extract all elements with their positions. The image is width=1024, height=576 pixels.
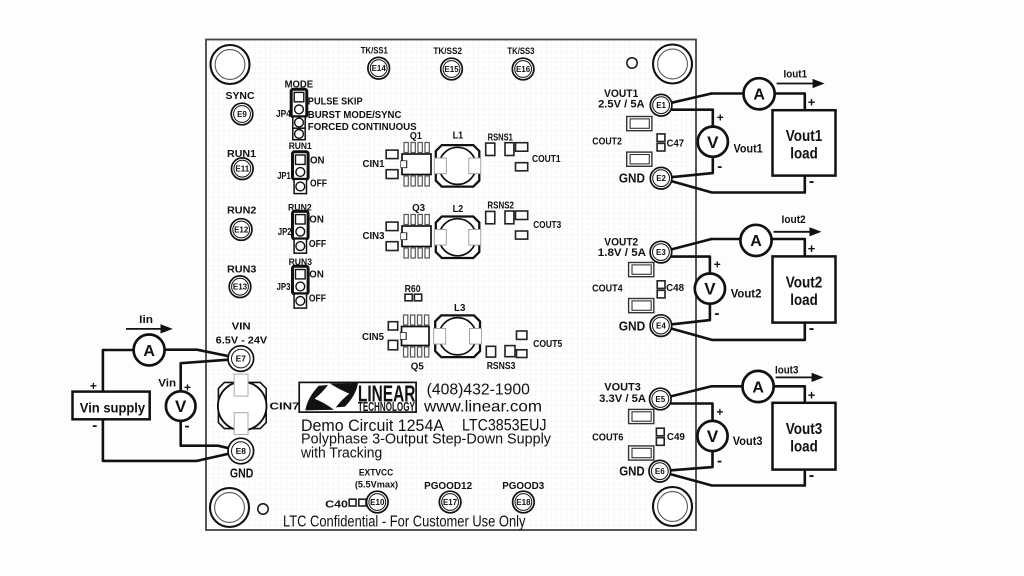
- svg-text:2.5V / 5A: 2.5V / 5A: [598, 99, 645, 111]
- inductor L2: [434, 217, 481, 259]
- transistor Q5: [401, 315, 429, 357]
- test point E10 EXTVCC: [367, 491, 389, 513]
- test point E17 PGOOD12: [439, 491, 461, 513]
- svg-text:A: A: [143, 343, 155, 360]
- mounting hole bottom-left: [210, 488, 249, 527]
- svg-text:E6: E6: [655, 467, 665, 476]
- svg-text:V: V: [175, 397, 187, 416]
- ammeter A output 3: [743, 371, 774, 402]
- svg-text:JP3: JP3: [277, 281, 291, 293]
- svg-text:with Tracking: with Tracking: [300, 445, 382, 461]
- Iout1 label and arrow: [777, 68, 825, 88]
- svg-text:JP2: JP2: [278, 226, 292, 238]
- test point E9 SYNC: [231, 103, 253, 125]
- transistor Q3: [401, 215, 431, 259]
- svg-text:C47: C47: [667, 139, 685, 150]
- voltmeter V output 3: [697, 421, 727, 451]
- svg-text:+: +: [808, 241, 816, 256]
- svg-text:V: V: [704, 280, 716, 299]
- svg-text:RSNS2: RSNS2: [487, 201, 514, 212]
- svg-text:www.linear.com: www.linear.com: [423, 399, 542, 416]
- capacitor COUT4 lower: [629, 299, 654, 313]
- capacitor near RSNS1: [516, 143, 528, 171]
- test point E11 RUN1: [232, 158, 254, 180]
- svg-text:E16: E16: [516, 65, 531, 74]
- svg-text:CIN7: CIN7: [270, 401, 300, 413]
- svg-text:Q5: Q5: [411, 361, 424, 373]
- wire ammeter to Vout2 load +: [772, 239, 805, 256]
- svg-text:E2: E2: [656, 174, 666, 183]
- voltmeter V output 1: [698, 127, 728, 157]
- capacitor COUT4 upper: [629, 263, 654, 277]
- capacitor C40: [349, 499, 366, 506]
- resistor RSNS1: [486, 143, 514, 156]
- svg-text:Vout3: Vout3: [786, 421, 823, 438]
- wire E3 to ammeter Iout2: [661, 239, 712, 252]
- svg-text:CIN3: CIN3: [363, 231, 385, 242]
- svg-text:COUT4: COUT4: [592, 284, 623, 295]
- Vout3 load box: [773, 403, 836, 470]
- Iin current label and arrow: [126, 314, 173, 334]
- capacitor C49: [656, 428, 685, 445]
- svg-text:L3: L3: [454, 302, 466, 314]
- test point E16 TK/SS3: [512, 58, 534, 80]
- svg-text:E13: E13: [233, 283, 248, 292]
- svg-text:+: +: [808, 387, 816, 402]
- svg-text:COUT3: COUT3: [533, 220, 561, 231]
- svg-text:-: -: [92, 417, 97, 434]
- wire E6 GND to load -: [660, 470, 805, 486]
- svg-text:VIN: VIN: [232, 321, 251, 333]
- jumper JP2 RUN2: [293, 211, 309, 253]
- svg-text:VOUT3: VOUT3: [604, 381, 641, 393]
- Iout3 label and arrow: [775, 364, 824, 382]
- svg-text:Iin: Iin: [139, 314, 153, 326]
- wire E5 to voltmeter Vout3 +: [660, 401, 712, 422]
- svg-text:PGOOD12: PGOOD12: [424, 481, 472, 492]
- svg-text:Q1: Q1: [410, 130, 422, 142]
- svg-text:C48: C48: [666, 283, 684, 294]
- resistor RSNS2: [486, 211, 514, 224]
- test point E3 VOUT2: [650, 241, 672, 263]
- svg-text:E7: E7: [236, 354, 247, 364]
- svg-text:V: V: [707, 427, 719, 446]
- wire E3 to voltmeter Vout2 +: [661, 254, 710, 274]
- wire ammeter to E7 VIN: [165, 350, 241, 359]
- svg-text:E18: E18: [516, 498, 531, 507]
- mounting hole top-left: [211, 45, 250, 84]
- capacitor COUT2 upper: [627, 117, 652, 131]
- wire voltmeter - to E6 GND: [660, 451, 713, 471]
- ammeter A output 1: [744, 78, 775, 109]
- test point E12 RUN2: [230, 219, 252, 241]
- svg-text:-: -: [809, 467, 814, 484]
- svg-text:load: load: [790, 438, 818, 455]
- Iout2 label and arrow: [774, 214, 822, 237]
- test point E14 TK/SS1: [368, 57, 390, 79]
- svg-text:Q3: Q3: [412, 202, 425, 214]
- svg-text:RSNS3: RSNS3: [487, 361, 516, 372]
- wire E5 to ammeter Iout3: [660, 386, 711, 399]
- svg-text:V: V: [707, 133, 719, 152]
- test point E4 GND: [650, 315, 672, 337]
- svg-text:L2: L2: [453, 203, 464, 215]
- svg-text:Vin supply: Vin supply: [80, 400, 146, 415]
- svg-text:GND: GND: [619, 171, 645, 186]
- Vin supply source box: [73, 392, 150, 420]
- mounting hole top-right: [653, 45, 692, 84]
- svg-text:E12: E12: [234, 225, 249, 234]
- inductor L1: [434, 145, 481, 187]
- svg-text:COUT1: COUT1: [532, 154, 561, 165]
- svg-text:PGOOD3: PGOOD3: [502, 481, 544, 492]
- svg-text:E9: E9: [237, 110, 247, 119]
- svg-text:6.5V - 24V: 6.5V - 24V: [216, 334, 268, 346]
- svg-text:A: A: [752, 379, 764, 396]
- svg-text:PULSE SKIP: PULSE SKIP: [308, 95, 363, 107]
- svg-text:load: load: [790, 292, 818, 309]
- svg-text:COUT5: COUT5: [533, 339, 563, 350]
- svg-text:Vout1: Vout1: [786, 128, 823, 145]
- wire voltmeter - to E2 GND: [661, 157, 713, 179]
- test point E5 VOUT3: [650, 388, 672, 410]
- svg-text:Vout2: Vout2: [731, 287, 762, 301]
- test point E1 VOUT1: [650, 94, 672, 116]
- small hole near bottom-left: [258, 504, 268, 514]
- voltmeter V input voltage: [166, 391, 196, 421]
- svg-text:E17: E17: [443, 498, 458, 507]
- svg-text:E10: E10: [370, 498, 385, 507]
- svg-text:BURST MODE/SYNC: BURST MODE/SYNC: [308, 109, 402, 121]
- svg-text:RUN2: RUN2: [227, 205, 257, 217]
- svg-text:Vout1: Vout1: [734, 142, 763, 156]
- svg-text:A: A: [753, 87, 765, 104]
- svg-text:+: +: [808, 95, 816, 110]
- wire ammeter to Vout1 load +: [775, 94, 805, 111]
- Vout2 load box: [773, 256, 836, 322]
- wire Vin supply + to ammeter: [103, 350, 134, 392]
- svg-text:C40: C40: [325, 500, 348, 511]
- wire E1 to ammeter Iout1: [661, 94, 711, 106]
- svg-text:E11: E11: [235, 165, 249, 174]
- turret E7 VIN: [228, 346, 254, 372]
- svg-text:RUN3: RUN3: [227, 263, 257, 275]
- mounting hole bottom-right: [653, 487, 692, 526]
- svg-text:JP4: JP4: [276, 108, 291, 120]
- svg-text:CIN5: CIN5: [362, 332, 384, 343]
- test point E15 TK/SS2: [441, 58, 463, 80]
- svg-text:-: -: [809, 320, 814, 337]
- svg-text:E15: E15: [444, 65, 459, 74]
- capacitor near RSNS2: [516, 211, 528, 239]
- capacitor C48: [657, 281, 684, 298]
- svg-text:1.8V / 5A: 1.8V / 5A: [598, 247, 646, 259]
- svg-text:OFF: OFF: [309, 293, 326, 305]
- svg-text:GND: GND: [619, 464, 645, 479]
- svg-text:COUT2: COUT2: [592, 136, 622, 147]
- svg-text:-: -: [717, 158, 722, 175]
- demo board outline: [206, 40, 696, 531]
- svg-text:Iout3: Iout3: [775, 364, 798, 376]
- svg-text:E1: E1: [656, 101, 666, 110]
- jumper JP3 RUN3: [293, 266, 309, 308]
- Vout1 load box: [773, 110, 836, 175]
- svg-text:L1: L1: [453, 129, 464, 141]
- svg-text:TK/SS3: TK/SS3: [507, 46, 534, 57]
- svg-text:Vin: Vin: [158, 377, 176, 389]
- wire E2 GND to load -: [661, 176, 805, 193]
- capacitor CIN1: [386, 150, 398, 178]
- svg-text:3.3V / 5A: 3.3V / 5A: [599, 393, 646, 405]
- capacitor COUT6 upper: [629, 409, 654, 423]
- voltmeter V output 2: [695, 274, 725, 304]
- wire Vin supply - to E8 GND: [103, 419, 241, 461]
- resistor R60: [405, 294, 422, 301]
- wire voltmeter Vin + to E7: [181, 359, 241, 392]
- wire voltmeter Vin - to E8: [181, 421, 241, 451]
- resistor RSNS3: [486, 346, 515, 357]
- svg-text:+: +: [714, 258, 721, 272]
- svg-text:EXTVCC: EXTVCC: [359, 467, 394, 478]
- svg-text:CIN1: CIN1: [363, 159, 385, 170]
- wire E4 GND to load -: [661, 323, 805, 340]
- svg-text:E5: E5: [655, 395, 665, 404]
- svg-text:Iout1: Iout1: [784, 68, 808, 80]
- svg-text:E14: E14: [372, 64, 387, 73]
- svg-text:GND: GND: [619, 318, 646, 333]
- test point E18 PGOOD3: [513, 491, 535, 513]
- test point E13 RUN3: [229, 276, 251, 298]
- svg-text:LTC Confidential - For Custom: LTC Confidential - For Customer Use Only: [283, 514, 526, 531]
- svg-text:ON: ON: [309, 269, 324, 281]
- capacitor COUT6 lower: [629, 446, 654, 460]
- jumper JP4 MODE: [291, 89, 307, 140]
- svg-text:GND: GND: [230, 465, 254, 480]
- capacitor CIN5: [388, 322, 397, 350]
- svg-text:ON: ON: [310, 155, 325, 167]
- svg-text:JP1: JP1: [277, 170, 291, 182]
- turret E8 GND: [228, 438, 254, 464]
- svg-text:-: -: [809, 173, 814, 190]
- svg-text:TECHNOLOGY: TECHNOLOGY: [358, 400, 415, 414]
- Linear Technology logo: [299, 380, 416, 414]
- svg-text:TK/SS1: TK/SS1: [361, 46, 389, 57]
- svg-text:FORCED CONTINUOUS: FORCED CONTINUOUS: [308, 121, 417, 133]
- svg-text:+: +: [184, 380, 191, 394]
- jumper JP1 RUN1: [293, 152, 309, 194]
- svg-text:+: +: [716, 405, 723, 419]
- svg-text:-: -: [717, 453, 722, 470]
- capacitor CIN3: [386, 222, 398, 250]
- capacitor COUT2 lower: [627, 152, 652, 166]
- svg-text:OFF: OFF: [310, 178, 327, 190]
- svg-text:Vout2: Vout2: [786, 274, 823, 291]
- svg-text:RSNS1: RSNS1: [488, 132, 514, 143]
- svg-text:(408)432-1900: (408)432-1900: [427, 382, 530, 399]
- svg-text:SYNC: SYNC: [226, 90, 255, 102]
- svg-text:OFF: OFF: [309, 238, 327, 250]
- svg-text:Vout3: Vout3: [733, 434, 763, 448]
- svg-text:C49: C49: [667, 432, 685, 443]
- svg-text:TK/SS2: TK/SS2: [433, 46, 462, 57]
- wire ammeter to Vout3 load +: [774, 386, 805, 403]
- svg-text:-: -: [185, 417, 190, 434]
- capacitor C47: [657, 134, 684, 151]
- svg-text:Iout2: Iout2: [782, 214, 806, 226]
- svg-text:+: +: [717, 111, 724, 125]
- transistor Q1: [401, 143, 431, 187]
- svg-text:+: +: [90, 379, 97, 393]
- small hole near top-right: [627, 58, 637, 68]
- capacitor COUT5 squares: [517, 331, 527, 358]
- test point E2 GND: [650, 167, 672, 189]
- svg-text:-: -: [714, 305, 719, 322]
- ammeter A output 2: [740, 225, 771, 256]
- capacitor CIN7: [218, 374, 300, 434]
- svg-text:E3: E3: [656, 248, 666, 257]
- svg-text:ON: ON: [309, 214, 324, 226]
- ammeter A input current: [134, 335, 165, 366]
- svg-text:load: load: [790, 146, 818, 163]
- svg-text:A: A: [750, 233, 762, 250]
- svg-text:E4: E4: [656, 321, 666, 330]
- svg-text:COUT6: COUT6: [592, 433, 624, 444]
- inductor L3: [434, 315, 482, 357]
- svg-text:E8: E8: [236, 446, 247, 456]
- svg-text:(5.5Vmax): (5.5Vmax): [355, 480, 398, 491]
- wire E1 to voltmeter Vout1 +: [661, 107, 713, 127]
- wire voltmeter - to E4 GND: [661, 304, 710, 326]
- test point E6 GND: [649, 460, 671, 482]
